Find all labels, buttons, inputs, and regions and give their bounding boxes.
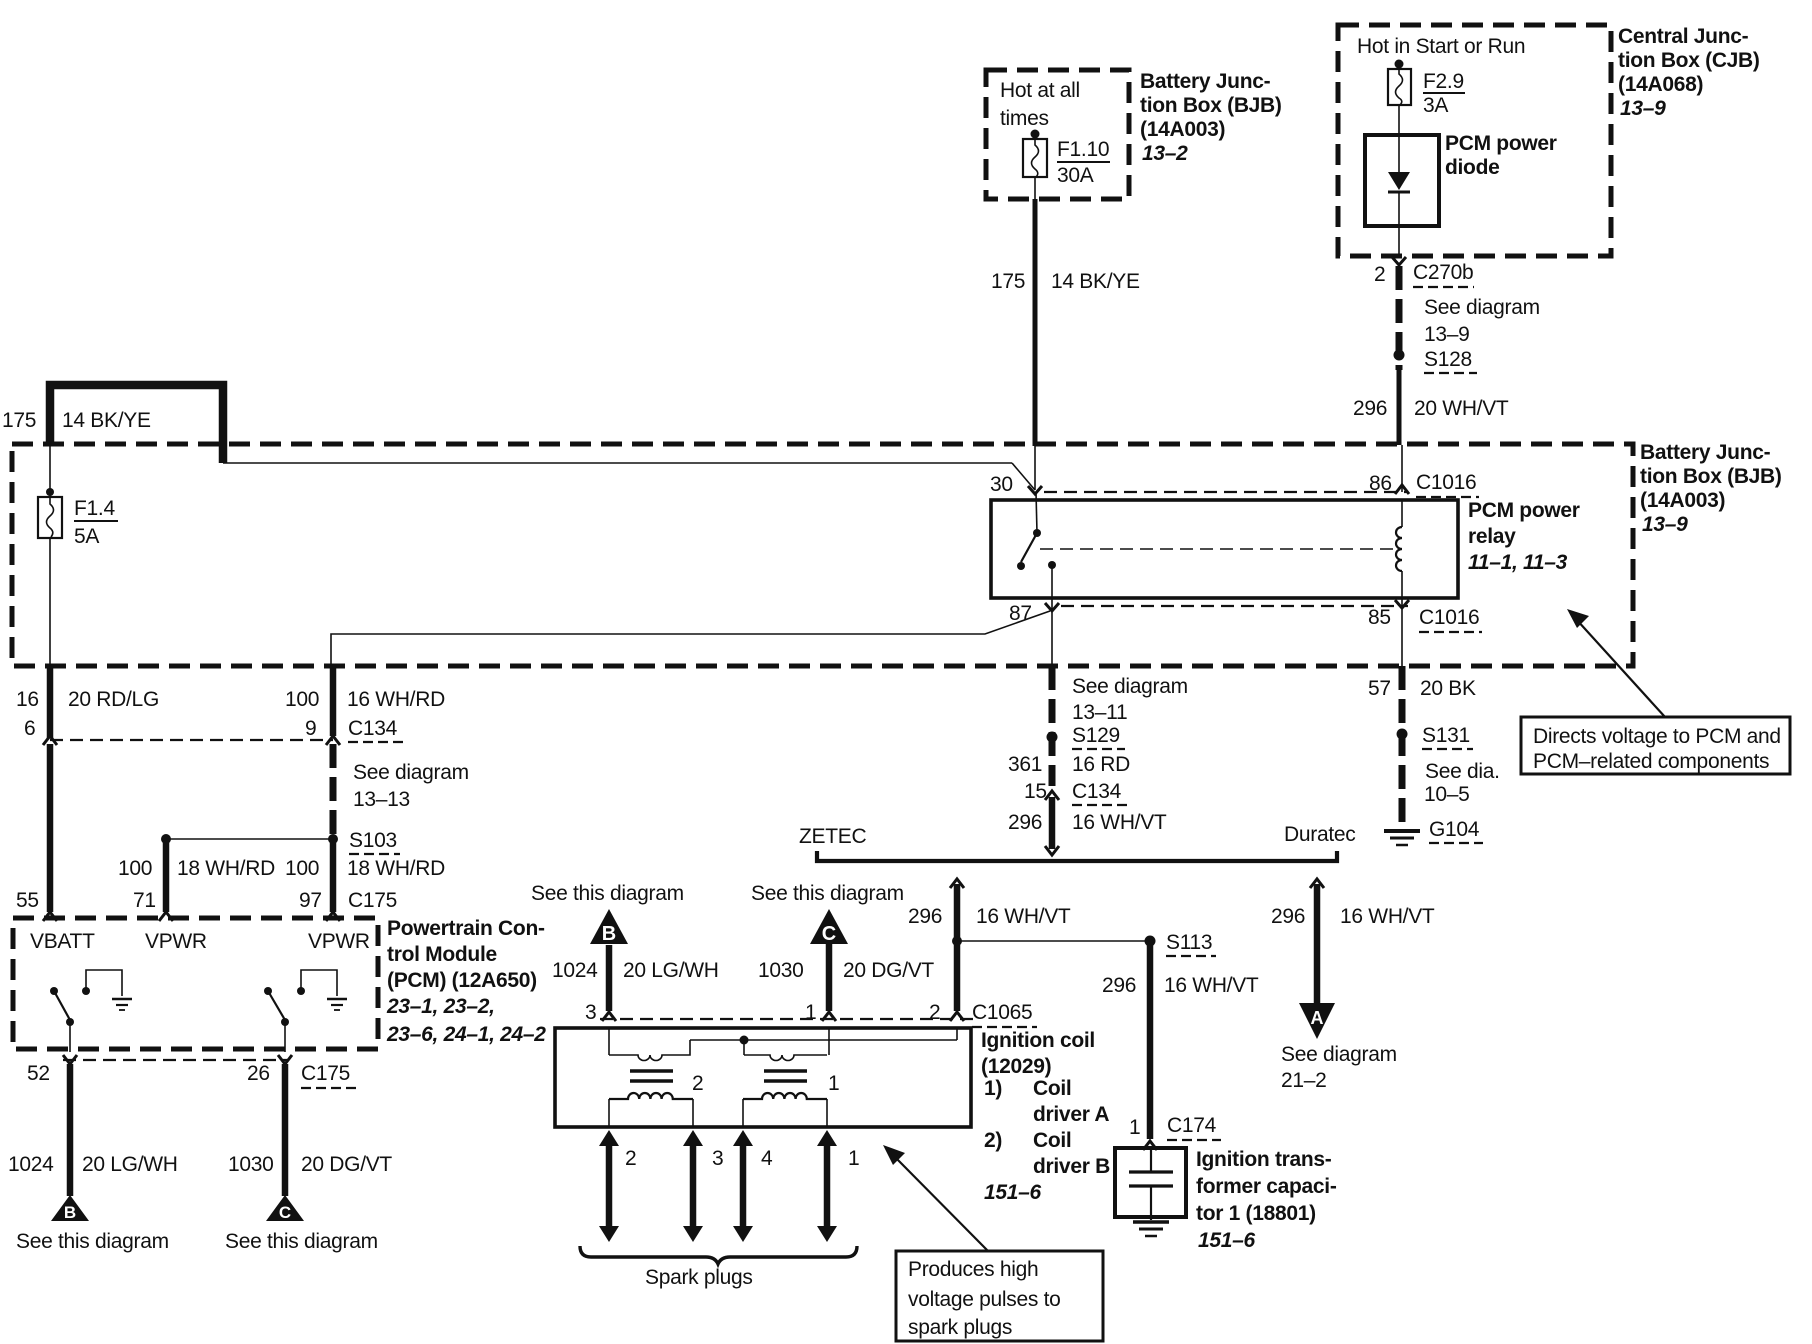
- svg-text:16 WH/RD: 16 WH/RD: [347, 688, 445, 711]
- svg-text:F1.10: F1.10: [1057, 138, 1109, 161]
- svg-text:1): 1): [984, 1077, 1002, 1100]
- svg-text:20 DG/VT: 20 DG/VT: [301, 1153, 392, 1176]
- svg-text:100: 100: [285, 857, 319, 880]
- svg-text:2: 2: [1374, 263, 1385, 286]
- svg-text:23–6, 24–1, 24–2: 23–6, 24–1, 24–2: [386, 1023, 546, 1046]
- svg-text:B: B: [602, 923, 616, 945]
- svg-text:VPWR: VPWR: [145, 930, 207, 953]
- svg-text:296: 296: [1353, 397, 1387, 420]
- svg-text:(14A003): (14A003): [1640, 489, 1725, 512]
- svg-text:C1065: C1065: [972, 1001, 1032, 1024]
- svg-text:15: 15: [1024, 780, 1047, 803]
- svg-text:10–5: 10–5: [1424, 783, 1470, 806]
- svg-text:1: 1: [848, 1147, 859, 1170]
- svg-text:71: 71: [133, 889, 156, 912]
- svg-text:ZETEC: ZETEC: [799, 825, 866, 848]
- svg-text:trol Module: trol Module: [387, 943, 497, 966]
- svg-text:Battery Junc-: Battery Junc-: [1140, 70, 1271, 93]
- svg-text:C174: C174: [1167, 1114, 1217, 1137]
- svg-text:tion Box (BJB): tion Box (BJB): [1140, 94, 1282, 117]
- svg-text:tion Box (CJB): tion Box (CJB): [1618, 49, 1760, 72]
- svg-text:S128: S128: [1424, 348, 1472, 371]
- svg-text:tion Box (BJB): tion Box (BJB): [1640, 465, 1782, 488]
- svg-text:C: C: [822, 923, 836, 945]
- svg-text:PCM–related components: PCM–related components: [1533, 750, 1769, 773]
- svg-text:See diagram: See diagram: [1424, 296, 1540, 319]
- svg-text:97: 97: [299, 889, 322, 912]
- svg-text:30A: 30A: [1057, 164, 1094, 187]
- svg-text:14 BK/YE: 14 BK/YE: [1051, 270, 1140, 293]
- svg-text:Directs voltage to PCM and: Directs voltage to PCM and: [1533, 725, 1781, 748]
- svg-text:Central Junc-: Central Junc-: [1618, 25, 1749, 48]
- svg-text:4: 4: [761, 1147, 773, 1170]
- svg-text:C1016: C1016: [1419, 606, 1479, 629]
- svg-text:23–1, 23–2,: 23–1, 23–2,: [386, 995, 495, 1018]
- svg-text:See this diagram: See this diagram: [16, 1230, 169, 1253]
- svg-text:20 DG/VT: 20 DG/VT: [843, 959, 934, 982]
- svg-text:11–1, 11–3: 11–1, 11–3: [1468, 551, 1568, 574]
- svg-text:16 WH/VT: 16 WH/VT: [1164, 974, 1259, 997]
- svg-text:20 LG/WH: 20 LG/WH: [82, 1153, 178, 1176]
- svg-text:See diagram: See diagram: [353, 761, 469, 784]
- svg-text:See this diagram: See this diagram: [751, 882, 904, 905]
- svg-text:Ignition trans-: Ignition trans-: [1196, 1148, 1332, 1171]
- svg-text:C1016: C1016: [1416, 471, 1476, 494]
- svg-text:(14A003): (14A003): [1140, 118, 1225, 141]
- svg-text:Battery Junc-: Battery Junc-: [1640, 441, 1771, 464]
- svg-text:20 BK: 20 BK: [1420, 677, 1476, 700]
- svg-text:85: 85: [1368, 606, 1391, 629]
- svg-text:1030: 1030: [228, 1153, 274, 1176]
- svg-text:175: 175: [2, 409, 36, 432]
- svg-text:52: 52: [27, 1062, 50, 1085]
- svg-text:9: 9: [305, 717, 316, 740]
- svg-text:57: 57: [1368, 677, 1391, 700]
- svg-text:Hot in Start or Run: Hot in Start or Run: [1357, 35, 1525, 58]
- svg-text:16 WH/VT: 16 WH/VT: [1340, 905, 1435, 928]
- svg-text:PCM power: PCM power: [1445, 132, 1557, 155]
- svg-text:16: 16: [16, 688, 39, 711]
- svg-text:S131: S131: [1422, 724, 1470, 747]
- svg-text:13–9: 13–9: [1424, 323, 1470, 346]
- svg-text:296: 296: [908, 905, 942, 928]
- svg-text:86: 86: [1369, 472, 1392, 495]
- svg-text:C175: C175: [301, 1062, 350, 1085]
- svg-text:18 WH/RD: 18 WH/RD: [177, 857, 275, 880]
- svg-text:Ignition coil: Ignition coil: [981, 1029, 1095, 1052]
- svg-text:20 WH/VT: 20 WH/VT: [1414, 397, 1509, 420]
- svg-text:See this diagram: See this diagram: [225, 1230, 378, 1253]
- svg-text:See dia.: See dia.: [1425, 760, 1500, 783]
- svg-text:spark plugs: spark plugs: [908, 1316, 1012, 1339]
- svg-text:175: 175: [991, 270, 1025, 293]
- svg-text:151–6: 151–6: [1198, 1229, 1256, 1252]
- svg-text:1024: 1024: [552, 959, 598, 982]
- svg-text:F1.4: F1.4: [74, 497, 115, 520]
- svg-text:Coil: Coil: [1033, 1129, 1071, 1152]
- svg-text:PCM power: PCM power: [1468, 499, 1580, 522]
- svg-text:See diagram: See diagram: [1072, 675, 1188, 698]
- svg-text:13–13: 13–13: [353, 788, 410, 811]
- svg-text:Powertrain Con-: Powertrain Con-: [387, 917, 545, 940]
- svg-text:VPWR: VPWR: [308, 930, 370, 953]
- svg-text:Hot at all: Hot at all: [1000, 79, 1080, 102]
- svg-text:13–9: 13–9: [1642, 513, 1688, 536]
- svg-text:Duratec: Duratec: [1284, 823, 1355, 846]
- svg-text:A: A: [1311, 1008, 1324, 1028]
- svg-text:296: 296: [1008, 811, 1042, 834]
- svg-text:B: B: [64, 1203, 76, 1222]
- svg-text:20 LG/WH: 20 LG/WH: [623, 959, 719, 982]
- svg-text:S129: S129: [1072, 724, 1120, 747]
- svg-text:1: 1: [1129, 1116, 1140, 1139]
- svg-text:296: 296: [1271, 905, 1305, 928]
- svg-text:C270b: C270b: [1413, 261, 1473, 284]
- svg-text:diode: diode: [1445, 156, 1500, 179]
- svg-text:F2.9: F2.9: [1423, 70, 1464, 93]
- svg-text:296: 296: [1102, 974, 1136, 997]
- svg-text:See diagram: See diagram: [1281, 1043, 1397, 1066]
- svg-text:21–2: 21–2: [1281, 1069, 1327, 1092]
- svg-text:1030: 1030: [758, 959, 804, 982]
- svg-text:16 WH/VT: 16 WH/VT: [976, 905, 1071, 928]
- svg-text:C175: C175: [348, 889, 397, 912]
- svg-text:1: 1: [805, 1001, 816, 1024]
- svg-text:6: 6: [24, 717, 35, 740]
- svg-text:C134: C134: [348, 717, 398, 740]
- svg-text:2): 2): [984, 1129, 1002, 1152]
- svg-text:C134: C134: [1072, 780, 1122, 803]
- svg-text:driver B: driver B: [1033, 1155, 1110, 1178]
- svg-text:2: 2: [929, 1001, 940, 1024]
- svg-text:14 BK/YE: 14 BK/YE: [62, 409, 151, 432]
- svg-text:2: 2: [692, 1072, 703, 1095]
- svg-text:driver A: driver A: [1033, 1103, 1109, 1126]
- svg-text:former capaci-: former capaci-: [1196, 1175, 1337, 1198]
- svg-text:1: 1: [828, 1072, 839, 1095]
- svg-text:13–9: 13–9: [1620, 97, 1666, 120]
- svg-text:(12029): (12029): [981, 1055, 1051, 1078]
- svg-text:18 WH/RD: 18 WH/RD: [347, 857, 445, 880]
- svg-text:361: 361: [1008, 753, 1042, 776]
- svg-text:Produces high: Produces high: [908, 1258, 1038, 1281]
- svg-text:S103: S103: [349, 829, 397, 852]
- svg-text:16 RD: 16 RD: [1072, 753, 1130, 776]
- svg-text:13–2: 13–2: [1142, 142, 1188, 165]
- svg-text:Coil: Coil: [1033, 1077, 1071, 1100]
- svg-text:100: 100: [285, 688, 319, 711]
- svg-text:16 WH/VT: 16 WH/VT: [1072, 811, 1167, 834]
- svg-text:voltage pulses to: voltage pulses to: [908, 1288, 1061, 1311]
- svg-text:VBATT: VBATT: [30, 930, 95, 953]
- svg-text:tor 1 (18801): tor 1 (18801): [1196, 1202, 1316, 1225]
- svg-text:55: 55: [16, 889, 39, 912]
- svg-text:3: 3: [585, 1001, 596, 1024]
- svg-text:G104: G104: [1429, 818, 1480, 841]
- svg-text:relay: relay: [1468, 525, 1516, 548]
- svg-text:times: times: [1000, 107, 1049, 130]
- svg-text:3: 3: [712, 1147, 723, 1170]
- svg-text:100: 100: [118, 857, 152, 880]
- svg-text:S113: S113: [1166, 931, 1212, 954]
- svg-text:20 RD/LG: 20 RD/LG: [68, 688, 159, 711]
- svg-text:13–11: 13–11: [1072, 701, 1127, 724]
- svg-text:Spark plugs: Spark plugs: [645, 1266, 753, 1289]
- svg-text:1024: 1024: [8, 1153, 54, 1176]
- svg-text:C: C: [279, 1203, 291, 1222]
- svg-text:(PCM) (12A650): (PCM) (12A650): [387, 969, 537, 992]
- svg-text:3A: 3A: [1423, 94, 1448, 117]
- svg-text:26: 26: [247, 1062, 270, 1085]
- svg-text:151–6: 151–6: [984, 1181, 1042, 1204]
- svg-text:5A: 5A: [74, 525, 99, 548]
- svg-text:(14A068): (14A068): [1618, 73, 1703, 96]
- svg-text:30: 30: [990, 473, 1013, 496]
- svg-text:See this diagram: See this diagram: [531, 882, 684, 905]
- svg-text:2: 2: [625, 1147, 636, 1170]
